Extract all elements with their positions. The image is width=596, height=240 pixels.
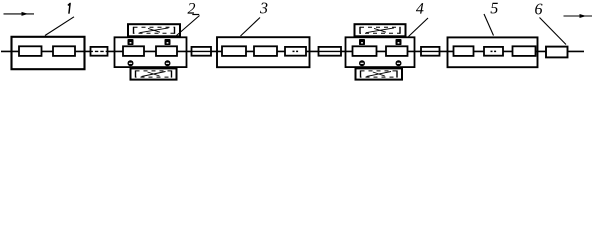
- guide box G1: [91, 47, 108, 56]
- node B: outfeed arrow: [564, 14, 593, 18]
- bottom roll chock of U4: [356, 68, 403, 79]
- bolt U4a-top: [359, 39, 365, 45]
- roller box U2a: [123, 46, 144, 56]
- roller box 5c: [513, 46, 536, 56]
- label leader 3: [241, 18, 261, 37]
- label 1: [68, 3, 70, 13]
- box 5: stand group item 5: [448, 37, 538, 67]
- bolt U4a-bottom: [359, 60, 365, 66]
- bolt U2b-bottom: [165, 60, 171, 66]
- bolt U2a-bottom: [128, 60, 134, 66]
- bottom roll barrel of U2: [136, 70, 172, 77]
- bolt U2b-top: [165, 39, 171, 45]
- roller box 1b: [53, 46, 75, 56]
- node A: infeed arrow: [4, 12, 35, 16]
- roller box U4a: [353, 46, 377, 56]
- bolt U4b-top: [396, 39, 402, 45]
- top roll barrel of U2: [134, 27, 175, 34]
- guide box G4: [421, 47, 440, 56]
- vertical stand U2 main box: [115, 37, 187, 67]
- label 2: [187, 3, 195, 14]
- label 5: [491, 3, 498, 14]
- roller box U4b: [386, 46, 408, 56]
- label 6: [535, 4, 542, 15]
- guide box 5b: [484, 47, 503, 56]
- label 3: [260, 3, 267, 14]
- bottom roll chock of U2: [131, 68, 177, 79]
- label leader 6: [540, 18, 567, 45]
- guide box G2: [192, 47, 212, 56]
- bolt U4b-bottom: [396, 60, 402, 66]
- label leader 5: [484, 14, 494, 36]
- guide box 3c: [285, 47, 306, 56]
- label leader 2: [177, 16, 200, 36]
- roller box 3b: [254, 46, 277, 56]
- roller box 5a: [454, 46, 474, 56]
- top roll chock of U2: [128, 24, 180, 36]
- box 1: stand group item 1: [12, 37, 85, 69]
- bolt U2a-top: [128, 39, 134, 45]
- label leader 1: [45, 17, 74, 36]
- roller box U2b: [156, 46, 177, 56]
- box 3: stand group item 3: [217, 37, 310, 67]
- roller box 3a: [222, 46, 246, 56]
- shear box item 6: [546, 47, 568, 58]
- guide box G3: [319, 47, 342, 56]
- top roll barrel of U4: [360, 27, 400, 34]
- wire: pass line through whole mill: [1, 50, 584, 52]
- bottom roll barrel of U4: [361, 70, 398, 77]
- label leader 4: [409, 18, 429, 37]
- top roll chock of U4: [355, 24, 406, 36]
- label 4: [416, 3, 424, 14]
- vertical stand U4 main box: [346, 37, 415, 67]
- roller box 1a: [19, 46, 42, 56]
